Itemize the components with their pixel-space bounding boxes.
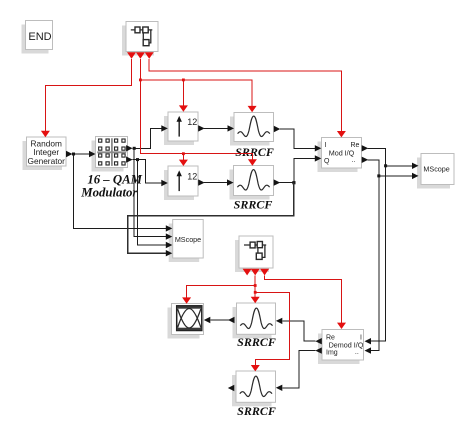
svg-text:SRRCF: SRRCF: [234, 198, 273, 212]
wire red drop -> Upsample1: [179, 80, 188, 112]
label 16-QAM Modulator: [80, 173, 142, 200]
node junction red trunk: [139, 79, 142, 82]
wire Re branch -> MScope right input 1: [386, 163, 419, 169]
block U2 event generator (bottom): [235, 236, 273, 272]
node junction QAM I branch: [133, 147, 136, 150]
block Upsample 2: [164, 166, 198, 200]
node junction red y80: [182, 79, 185, 82]
wire QAM out I -> Upsample1: [126, 125, 168, 151]
node junction RIG branch: [72, 153, 75, 156]
node junction SRRCF2 net: [292, 181, 295, 184]
block SRRCF 3 (filter): [233, 303, 276, 338]
wire SRRCF3 out -> Eye scope: [204, 317, 235, 323]
wire RIG -> QAM: [66, 151, 96, 157]
wire Demod Img out -> SRRCF4: [276, 347, 322, 391]
block SRRCF 2 (filter): [230, 166, 274, 200]
svg-text:12: 12: [187, 117, 197, 127]
svg-text:..: ..: [355, 349, 359, 356]
svg-text:Mod I/Q: Mod I/Q: [329, 148, 355, 157]
wire SRRCF4 out stub: [228, 385, 235, 391]
wire QAM out Q -> Upsample2: [126, 156, 168, 186]
wire junction -> MScope middle input 4 (long run): [128, 183, 294, 257]
wire U2 mid -> SRRCF3 trunk: [251, 275, 260, 303]
wire U1 left -> RIG: [41, 59, 132, 137]
block Random Integer Generator: [23, 137, 67, 170]
wire junction -> Mod I/Q input Q: [294, 155, 322, 182]
wire red drop -> Upsample2: [179, 154, 188, 166]
wire red branch -> Eye scope: [182, 286, 255, 304]
wire Demod Re out -> SRRCF3: [276, 318, 322, 345]
wire U1 right -> Mod I/Q: [149, 59, 346, 138]
block 16-QAM Modulator (constellation icon): [92, 137, 128, 172]
node U1 out ports (red arrows): [127, 52, 154, 59]
svg-text:Generator: Generator: [28, 156, 66, 166]
wire Mod I/Q out 2 -> down: [362, 157, 379, 354]
block SRRCF 4 (filter): [232, 371, 276, 406]
block END (terminator): [22, 21, 53, 54]
block U1 event generator (top): [122, 22, 158, 56]
wire out2 branch -> MScope right input 2: [379, 173, 419, 179]
wire red branch -> SRRCF4: [251, 292, 290, 371]
wire Upsample2 -> SRRCF2: [198, 179, 233, 185]
wire U2 right -> Demod I/Q: [265, 275, 346, 329]
svg-text:Img: Img: [326, 350, 338, 357]
node junction out2 net: [377, 174, 380, 177]
svg-text:END: END: [28, 31, 51, 43]
block Demod I/Q: [318, 330, 364, 365]
svg-text:SRRCF: SRRCF: [237, 335, 276, 349]
block Mod I/Q: [318, 138, 362, 173]
wire QAM I branch -> MScope middle input 2: [134, 148, 172, 240]
svg-text:Q: Q: [324, 158, 330, 165]
wire Upsample1 -> SRRCF1: [198, 125, 234, 131]
block Upsample 1: [164, 112, 198, 145]
svg-text:SRRCF: SRRCF: [237, 404, 276, 418]
wire QAM Q branch -> MScope middle input 3: [138, 160, 173, 249]
node U2 out ports (red arrows): [243, 269, 270, 276]
svg-text:Modulator: Modulator: [80, 186, 138, 200]
wire Mod I/Q out Re -> down: [362, 145, 386, 344]
wire SRRCF1 -> Mod I/Q input I: [274, 126, 322, 152]
block Eye diagram scope: [168, 304, 204, 339]
svg-text:SRRCF: SRRCF: [235, 145, 274, 159]
wire U1 mid -> SRRCF2 (vertical trunk): [140, 59, 257, 166]
block MScope (right): [417, 154, 454, 189]
svg-text:12: 12: [187, 171, 197, 181]
block MScope (middle): [169, 220, 204, 263]
block SRRCF 1 (filter): [230, 113, 274, 146]
svg-text:I: I: [325, 142, 327, 149]
node junction Re net: [384, 164, 387, 167]
svg-text:MScope: MScope: [175, 235, 201, 244]
svg-text:..: ..: [352, 157, 356, 164]
wire red branch y80 -> SRRCF1: [140, 80, 256, 112]
svg-text:Demod I/Q: Demod I/Q: [329, 340, 364, 349]
node junction red mid 1: [254, 284, 257, 287]
wire SRRCF2 out -> junction: [274, 179, 294, 185]
node junction QAM Q branch: [136, 158, 139, 161]
node junction red mid 2: [254, 291, 257, 294]
wire RIG branch -> MScope middle input 1: [74, 154, 173, 232]
node junction red y154: [182, 152, 185, 155]
svg-text:MScope: MScope: [423, 164, 449, 173]
